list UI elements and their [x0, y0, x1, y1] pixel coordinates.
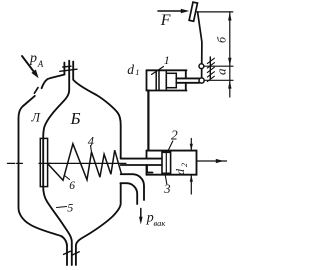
svg-text:вак: вак	[154, 218, 167, 228]
svg-text:а: а	[214, 68, 229, 75]
svg-text:3: 3	[163, 182, 170, 196]
svg-text:F: F	[160, 12, 171, 29]
svg-text:1: 1	[135, 67, 139, 77]
svg-text:2: 2	[180, 163, 189, 167]
svg-text:2: 2	[171, 128, 178, 143]
svg-text:A: A	[37, 59, 44, 69]
svg-text:1: 1	[164, 53, 170, 67]
svg-text:Б: Б	[70, 109, 81, 128]
svg-text:Л: Л	[31, 111, 42, 125]
svg-text:6: 6	[69, 180, 75, 192]
svg-text:d: d	[173, 168, 187, 175]
svg-text:d: d	[127, 62, 134, 77]
svg-text:4: 4	[88, 135, 94, 149]
svg-text:p: p	[29, 51, 37, 66]
svg-text:5: 5	[67, 201, 73, 215]
svg-text:б: б	[214, 36, 228, 43]
